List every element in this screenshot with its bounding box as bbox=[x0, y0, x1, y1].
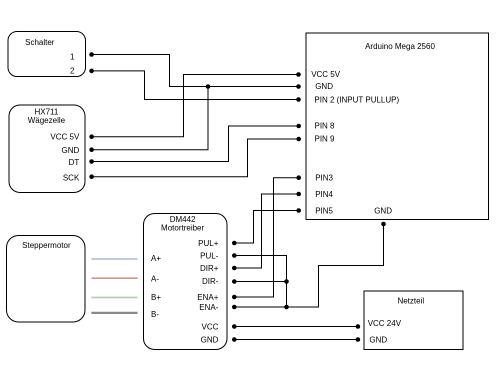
node Arduino PIN5 bbox=[296, 208, 301, 213]
node Netzteil VCC 24V bbox=[356, 324, 361, 329]
svg-text:PIN 2 (INPUT PULLUP): PIN 2 (INPUT PULLUP) bbox=[314, 95, 399, 104]
wire B- gray bbox=[91, 312, 137, 314]
wire HX711 VCC 5V to Arduino VCC 5V bbox=[92, 75, 299, 137]
node Arduino PIN3 bbox=[296, 175, 301, 180]
wire DM442 VCC to Netzteil VCC 24V bbox=[234, 326, 358, 328]
wire DM442 DIR- to tie bus bbox=[234, 281, 286, 283]
node DM442 DIR+ bbox=[232, 266, 237, 271]
svg-text:PUL+: PUL+ bbox=[198, 239, 219, 248]
svg-text:VCC: VCC bbox=[202, 322, 219, 331]
svg-text:GND: GND bbox=[62, 146, 80, 155]
DM442 Motortreiber box bbox=[144, 214, 228, 350]
svg-text:B-: B- bbox=[151, 310, 159, 319]
Schalter box bbox=[8, 32, 86, 77]
node Arduino GND bottom bbox=[381, 222, 386, 227]
node DM442 VCC bbox=[232, 324, 237, 329]
svg-text:DIR-: DIR- bbox=[202, 277, 219, 286]
svg-text:Motortreiber: Motortreiber bbox=[161, 224, 204, 233]
node DM442 ENA- bbox=[232, 305, 237, 310]
wire Schalter 2 to Arduino PIN 2 bbox=[92, 71, 299, 100]
node Arduino PIN 9 bbox=[296, 137, 301, 142]
svg-text:2: 2 bbox=[70, 67, 75, 76]
node Arduino PIN 8 bbox=[296, 124, 301, 129]
svg-text:DT: DT bbox=[69, 158, 80, 167]
node HX711 SCK bbox=[89, 174, 94, 179]
svg-text:A+: A+ bbox=[151, 254, 161, 263]
node HX711 GND bbox=[89, 147, 94, 152]
node Schalter pin 2 bbox=[89, 69, 94, 74]
Arduino Mega 2560 box bbox=[306, 33, 489, 220]
wire DM442 ENA- to Arduino GND bottom bbox=[234, 224, 383, 307]
svg-text:Schalter: Schalter bbox=[25, 38, 55, 47]
svg-text:B+: B+ bbox=[151, 293, 161, 302]
node DM442 DIR- bbox=[232, 279, 237, 284]
wire Arduino PIN4 to DM442 DIR+ bbox=[234, 194, 298, 268]
wire HX711 SCK to Arduino PIN 9 bbox=[92, 139, 299, 177]
wire DM442 PUL- tie bus bbox=[234, 256, 286, 308]
svg-text:GND: GND bbox=[374, 206, 392, 215]
junction GND line bbox=[206, 84, 211, 89]
node Netzteil GND bbox=[356, 337, 361, 342]
svg-text:Netzteil: Netzteil bbox=[397, 297, 424, 306]
svg-text:DIR+: DIR+ bbox=[200, 264, 219, 273]
svg-text:PUL-: PUL- bbox=[200, 251, 219, 260]
svg-text:PIN 9: PIN 9 bbox=[315, 135, 336, 144]
wire DM442 GND to Netzteil GND bbox=[234, 339, 358, 341]
svg-text:DM442: DM442 bbox=[170, 215, 196, 224]
node Arduino PIN4 bbox=[296, 192, 301, 197]
wire Arduino PIN5 to DM442 PUL+ bbox=[234, 211, 298, 244]
svg-text:SCK: SCK bbox=[63, 173, 80, 182]
svg-text:GND: GND bbox=[369, 336, 387, 345]
node Arduino GND bbox=[296, 84, 301, 89]
svg-text:PIN4: PIN4 bbox=[315, 190, 333, 199]
node HX711 DT bbox=[89, 159, 94, 164]
node DM442 ENA+ bbox=[232, 295, 237, 300]
svg-text:VCC 5V: VCC 5V bbox=[50, 133, 80, 142]
node DM442 GND bbox=[232, 337, 237, 342]
svg-text:1: 1 bbox=[70, 52, 75, 61]
svg-text:ENA-: ENA- bbox=[199, 303, 218, 312]
svg-text:PIN5: PIN5 bbox=[315, 206, 333, 215]
node Schalter pin 1 bbox=[89, 52, 94, 57]
node DM442 PUL- bbox=[232, 253, 237, 258]
svg-text:VCC 5V: VCC 5V bbox=[311, 70, 341, 79]
svg-text:PIN 8: PIN 8 bbox=[315, 122, 336, 131]
junction tie bus ENA- bbox=[284, 305, 289, 310]
svg-text:Arduino Mega 2560: Arduino Mega 2560 bbox=[365, 42, 435, 51]
svg-text:ENA+: ENA+ bbox=[197, 293, 218, 302]
Steppermotor box bbox=[7, 236, 86, 323]
wire Arduino PIN3 to DM442 ENA+ bbox=[234, 178, 298, 297]
wire HX711 DT to Arduino PIN 8 bbox=[92, 126, 299, 162]
svg-text:Steppermotor: Steppermotor bbox=[22, 241, 71, 250]
wire B+ green bbox=[91, 297, 137, 299]
wire A+ blue bbox=[91, 258, 137, 260]
node Arduino VCC 5V bbox=[296, 72, 301, 77]
svg-text:PIN3: PIN3 bbox=[315, 174, 333, 183]
node Arduino PIN 2 bbox=[296, 97, 301, 102]
svg-text:A-: A- bbox=[151, 275, 159, 284]
node HX711 VCC 5V bbox=[89, 134, 94, 139]
node DM442 PUL+ bbox=[232, 241, 237, 246]
svg-text:VCC 24V: VCC 24V bbox=[368, 319, 402, 328]
HX711 Waegezelle box bbox=[9, 105, 85, 193]
svg-text:GND: GND bbox=[201, 335, 219, 344]
Netzteil box bbox=[364, 291, 463, 350]
wire A- red bbox=[91, 277, 137, 279]
svg-text:Wägezelle: Wägezelle bbox=[28, 116, 66, 125]
junction tie bus DIR- bbox=[284, 279, 289, 284]
svg-text:GND: GND bbox=[315, 82, 333, 91]
wire HX711 GND to GND junction bbox=[92, 87, 208, 150]
wire Schalter 1 to Arduino GND line bbox=[92, 55, 299, 87]
